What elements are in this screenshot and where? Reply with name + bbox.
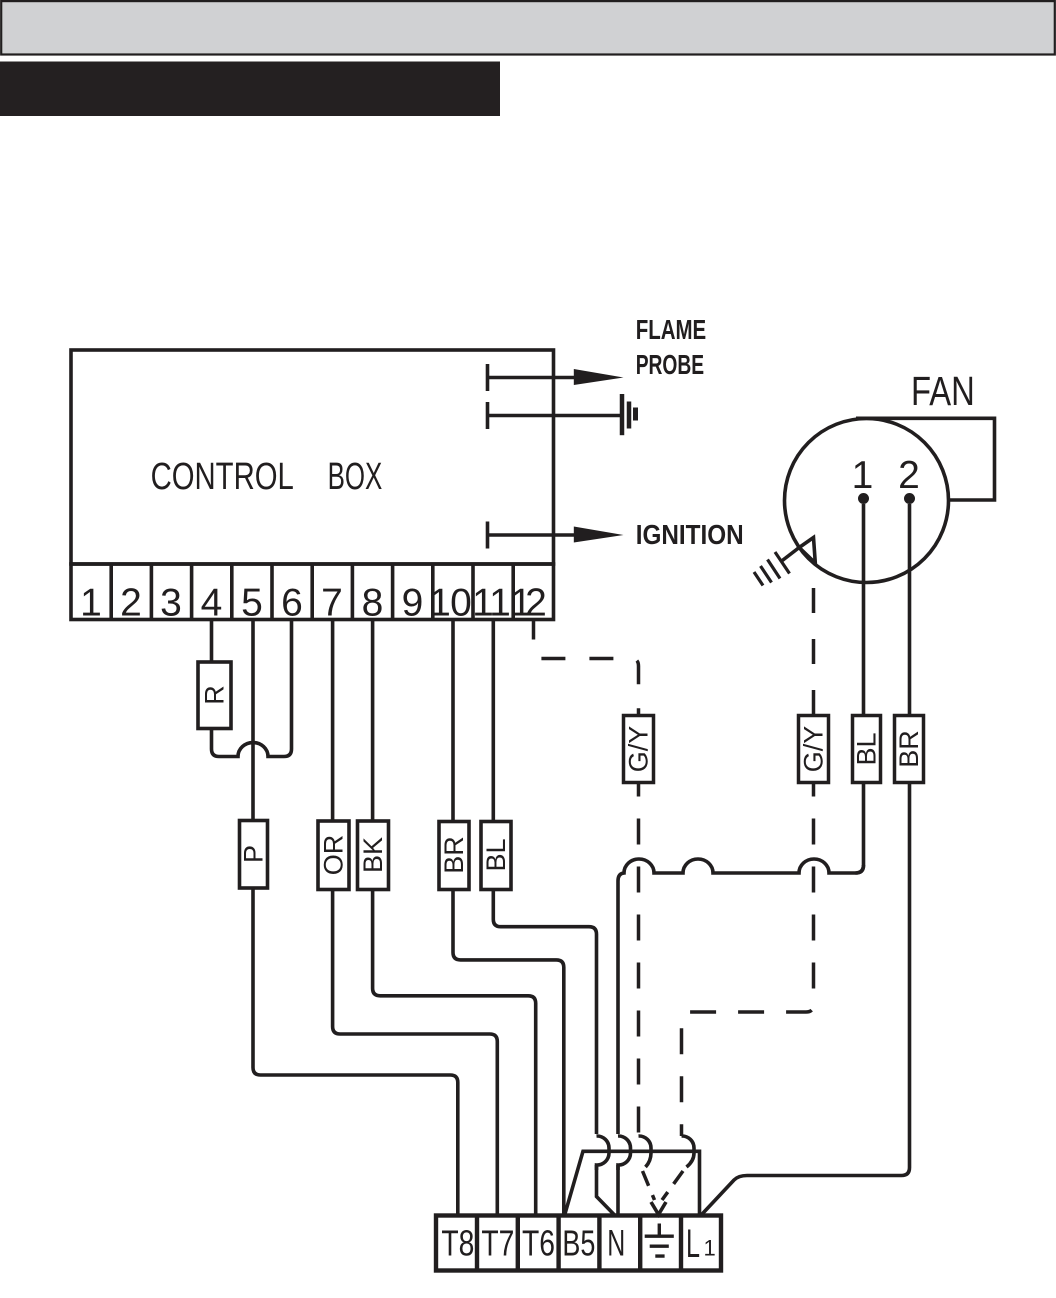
svg-text:PROBE: PROBE [636, 351, 704, 381]
svg-text:FLAME: FLAME [636, 315, 707, 346]
svg-text:IGNITION: IGNITION [636, 521, 744, 551]
svg-text:BL: BL [852, 732, 882, 765]
svg-text:8: 8 [362, 582, 384, 625]
svg-text:BR: BR [894, 730, 924, 768]
svg-text:9: 9 [402, 582, 424, 625]
svg-text:4: 4 [201, 582, 223, 625]
svg-text:0: 0 [450, 582, 472, 625]
svg-text:FAN: FAN [911, 367, 975, 413]
svg-text:1: 1 [80, 582, 102, 625]
svg-text:G/Y: G/Y [624, 726, 654, 773]
svg-text:T8: T8 [441, 1223, 474, 1264]
svg-text:7: 7 [321, 582, 343, 625]
svg-text:3: 3 [160, 582, 182, 625]
svg-text:1: 1 [489, 582, 511, 625]
svg-text:BK: BK [358, 837, 388, 873]
svg-text:6: 6 [281, 582, 303, 625]
svg-text:1: 1 [852, 454, 874, 497]
svg-text:OR: OR [319, 835, 349, 876]
svg-text:5: 5 [241, 582, 263, 625]
svg-text:BL: BL [481, 838, 511, 871]
svg-text:2: 2 [898, 454, 920, 497]
svg-text:BR: BR [439, 836, 469, 874]
svg-text:CONTROL: CONTROL [151, 455, 294, 498]
svg-text:T6: T6 [522, 1223, 555, 1264]
svg-text:1: 1 [429, 582, 451, 625]
svg-text:2: 2 [525, 582, 547, 625]
svg-text:L: L [686, 1222, 700, 1266]
svg-text:T7: T7 [481, 1223, 514, 1264]
svg-text:R: R [200, 685, 230, 705]
svg-text:P: P [239, 845, 269, 863]
svg-text:N: N [607, 1223, 625, 1264]
svg-text:1: 1 [704, 1236, 716, 1261]
svg-text:2: 2 [120, 582, 142, 625]
svg-text:BOX: BOX [328, 454, 383, 497]
svg-text:B5: B5 [562, 1223, 595, 1264]
svg-text:G/Y: G/Y [799, 726, 829, 773]
